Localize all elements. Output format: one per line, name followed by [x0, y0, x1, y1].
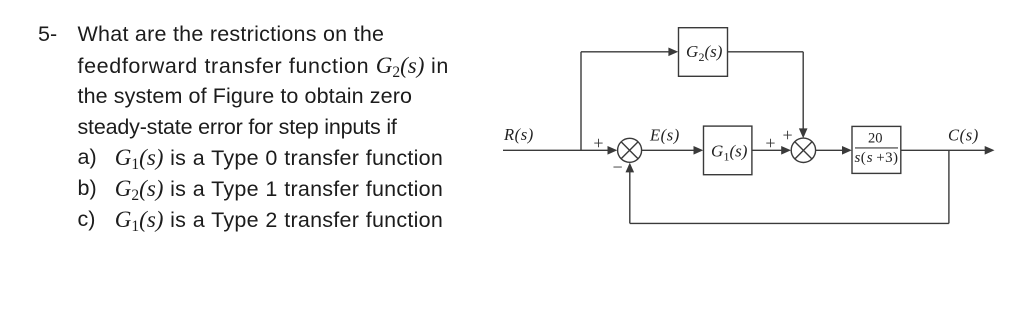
svg-text:−: − [613, 157, 623, 177]
svg-text:C(s): C(s) [948, 126, 979, 145]
svg-text:+: + [783, 125, 793, 145]
svg-text:(s): (s) [705, 42, 723, 61]
svg-text:s: s [855, 150, 861, 166]
block G2 [679, 28, 728, 77]
wire: feedback bottom run [630, 222, 949, 224]
wire: plant output to C(s) [901, 149, 991, 151]
svg-text:(: ( [861, 150, 866, 166]
arrowhead into plant block [842, 146, 852, 155]
wire: feedback up into junction 1 [629, 168, 631, 223]
arrowhead into G1 block [694, 146, 704, 155]
arrowhead down into junction 2 [799, 128, 808, 138]
wire: feedback down from output branch [948, 150, 950, 223]
arrowhead into junction 1 [608, 146, 618, 155]
svg-text:(s): (s) [730, 142, 748, 161]
svg-text:R(s): R(s) [503, 125, 534, 144]
svg-text:+: + [765, 133, 775, 153]
summing junction 2 [791, 138, 815, 162]
wire: corner down into summing junction 2 [802, 52, 804, 133]
wire: R(s) input to summing junction 1 [503, 149, 614, 151]
wire: branch up from input line [580, 52, 582, 151]
arrowhead output C(s) [985, 146, 995, 155]
svg-text:+: + [593, 133, 603, 153]
svg-text:20: 20 [868, 131, 883, 147]
wire: junction 2 to plant block [816, 149, 846, 151]
wire: top run into G2 block [581, 51, 672, 53]
question text block [38, 19, 57, 50]
arrowhead up into junction 1 from feedback [626, 163, 635, 173]
block G1 [704, 126, 752, 175]
svg-text:+3): +3) [876, 150, 898, 166]
svg-text:G: G [686, 42, 698, 61]
svg-text:E(s): E(s) [649, 126, 680, 145]
arrowhead into G2 block [668, 48, 678, 57]
summing junction 1 [618, 138, 642, 162]
wire: G1 output to junction 2 [752, 149, 785, 151]
block plant 20/s(s+3) [852, 126, 901, 173]
svg-text:G: G [711, 142, 723, 161]
wire: G2 output to corner [728, 51, 804, 53]
arrowhead into junction 2 from G1 [781, 146, 791, 155]
svg-text:s: s [867, 150, 873, 166]
wire: junction 1 to G1 block [642, 149, 698, 151]
